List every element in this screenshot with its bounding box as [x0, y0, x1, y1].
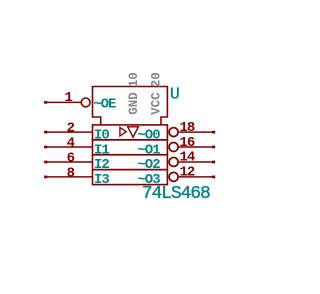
IC U 74LS468 control block outline	[93, 87, 168, 125]
svg-text:I2: I2	[94, 157, 109, 173]
svg-text:~O0: ~O0	[137, 128, 160, 144]
pin 18 wire	[179, 131, 215, 133]
buffer unit row 3 box (I2)	[93, 155, 168, 170]
svg-text:16: 16	[180, 135, 195, 151]
svg-text:74LS468: 74LS468	[142, 184, 210, 204]
pin 14 inversion bubble	[169, 157, 178, 166]
svg-text:GND: GND	[127, 92, 141, 115]
svg-text:VCC: VCC	[150, 92, 164, 115]
pin 1 wire	[44, 101, 81, 103]
svg-text:~OE: ~OE	[93, 97, 116, 113]
pin 14 wire	[179, 161, 215, 163]
svg-text:1: 1	[64, 90, 72, 106]
pin 16 inversion bubble	[169, 143, 178, 152]
svg-text:20: 20	[150, 72, 164, 87]
pin 12 wire	[179, 176, 215, 178]
svg-text:I0: I0	[94, 128, 109, 144]
svg-text:12: 12	[180, 165, 195, 181]
pin 1 inversion bubble	[81, 98, 90, 107]
svg-text:I1: I1	[94, 142, 109, 158]
svg-text:4: 4	[67, 136, 75, 152]
svg-text:I3: I3	[94, 172, 109, 188]
buffer unit row 4 box (I3)	[93, 170, 168, 185]
buffer unit row 1 box (I0)	[93, 125, 168, 140]
buffer unit row 2 box (I1)	[93, 140, 168, 155]
pin 6 wire	[44, 161, 92, 163]
svg-text:~O2: ~O2	[137, 157, 160, 173]
svg-text:18: 18	[180, 120, 195, 136]
svg-text:14: 14	[180, 150, 195, 166]
tri-state buffer amplifier triangle	[120, 127, 126, 136]
svg-text:8: 8	[67, 165, 75, 181]
svg-text:10: 10	[127, 72, 141, 87]
pin 18 inversion bubble	[169, 128, 178, 137]
svg-text:2: 2	[67, 121, 75, 137]
tri-state output down triangle	[128, 127, 139, 137]
pin 2 wire	[44, 131, 92, 133]
svg-text:~O1: ~O1	[137, 142, 160, 158]
pin 8 wire	[44, 176, 92, 178]
svg-text:6: 6	[67, 150, 75, 166]
pin 4 wire	[44, 146, 92, 148]
pin 12 inversion bubble	[169, 172, 178, 181]
svg-text:U: U	[170, 85, 180, 104]
pin 16 wire	[179, 146, 215, 148]
